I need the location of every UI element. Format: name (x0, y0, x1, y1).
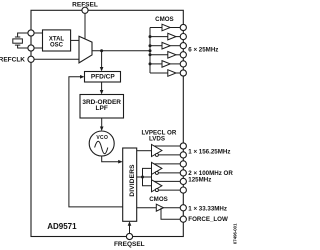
pins LVPECL/LVDS outputs (180, 143, 186, 193)
pin 33.33MHz output (180, 205, 186, 211)
svg-text:FREQSEL: FREQSEL (114, 241, 145, 248)
wire branch to buffer 2 (143, 168, 152, 177)
wire branch to buffer 3 (143, 177, 152, 186)
svg-text:CMOS: CMOS (155, 16, 174, 23)
outer box AD9571 (31, 10, 183, 236)
VCO (89, 131, 114, 156)
lvpecl buffer 2 (152, 162, 162, 174)
3rd-order LPF block (80, 95, 124, 119)
svg-text:LPF: LPF (96, 105, 108, 112)
wire refclk to mux (31, 58, 79, 60)
lvpecl buffer 3 output wires (155, 180, 181, 182)
feedback wire dividers to PFD/CP with arrow (69, 77, 123, 207)
wire mux output to cmos buffers feed (92, 50, 150, 52)
reference mux (79, 36, 92, 63)
wire dividers to 33MHz cmos buffer (137, 207, 157, 209)
cmos buffer 6 (168, 70, 176, 77)
svg-text:FORCE_LOW: FORCE_LOW (188, 216, 228, 223)
wire xtal osc output to mux (71, 39, 79, 41)
lvpecl buffer 1 output wires (155, 145, 181, 147)
33MHz cmos buffer (156, 204, 163, 211)
wire dividers to buffer 2/3 branch (137, 176, 151, 178)
node mux output junction (100, 49, 103, 52)
cmos buffer 5 (162, 61, 170, 68)
node branch junction (141, 176, 144, 179)
wire dividers to lvpecl buffer 1 (137, 150, 152, 152)
cmos buffer 3 (162, 42, 170, 49)
wire xtal pin1 to xtal osc (31, 32, 43, 34)
pin REFCLK (28, 56, 34, 62)
svg-text:REFSEL: REFSEL (72, 1, 98, 8)
xtal oscillator U1 (43, 30, 71, 51)
lvpecl buffer 2 output wires (155, 163, 181, 165)
dividers block (123, 148, 137, 221)
svg-text:DIVIDERS: DIVIDERS (129, 164, 136, 197)
cmos buffer 1 (162, 24, 170, 31)
33MHz cmos buffer output (164, 207, 181, 209)
svg-text:AD9571: AD9571 (47, 222, 77, 231)
svg-text:6 × 25MHz: 6 × 25MHz (188, 47, 218, 54)
svg-text:125MHz: 125MHz (188, 176, 211, 183)
crystal Y1 (13, 33, 31, 48)
pins CMOS 25MHz outputs (180, 24, 186, 76)
pin XTAL2 (28, 45, 34, 51)
wire LPF to VCO with arrow (101, 118, 103, 127)
wire refsel to mux select (84, 10, 86, 39)
lvpecl buffer 1 (152, 145, 162, 157)
pin XTAL1 (28, 30, 34, 36)
cmos feed line (149, 28, 151, 74)
wire to force_low pin (161, 208, 180, 219)
wire VCO to dividers with arrow (102, 156, 119, 162)
cmos buffer 2 (168, 33, 176, 40)
wire junction down to PFD/CP with arrow (101, 51, 103, 68)
svg-text:07496-001: 07496-001 (232, 223, 237, 244)
svg-text:1 × 33.33MHz: 1 × 33.33MHz (188, 205, 227, 212)
cmos buffer row wires (150, 28, 180, 74)
PFD/CP block (85, 72, 121, 83)
lvpecl buffer 3 (152, 180, 162, 192)
pin REFSEL (82, 7, 88, 13)
pin FORCE_LOW (180, 216, 186, 222)
svg-text:PFD/CP: PFD/CP (91, 74, 116, 81)
wire freqsel to dividers with arrow (129, 225, 131, 236)
svg-text:CMOS: CMOS (149, 196, 168, 203)
svg-text:OSC: OSC (50, 43, 64, 49)
wire connector between buffer 2 and buffer 3 left edges (151, 174, 153, 179)
wire PFD/CP to LPF with arrow (101, 82, 103, 91)
pin FREQSEL (126, 233, 132, 239)
wire xtal pin2 to xtal osc (31, 47, 43, 49)
svg-text:VCO: VCO (96, 135, 108, 141)
svg-text:LVDS: LVDS (149, 135, 165, 142)
svg-text:REFCLK: REFCLK (0, 57, 25, 64)
cmos buffer 4 (168, 52, 176, 59)
svg-text:1 × 156.25MHz: 1 × 156.25MHz (188, 148, 230, 155)
node feed junctions (149, 35, 152, 65)
